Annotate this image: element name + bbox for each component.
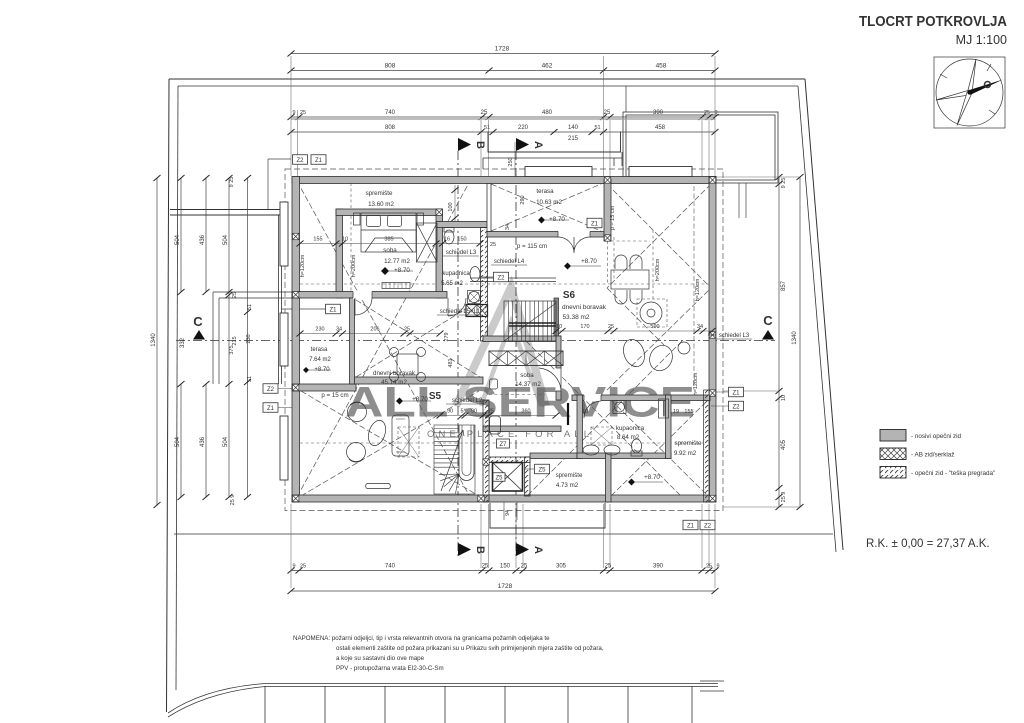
- svg-text:51: 51: [247, 304, 253, 310]
- component: door gap soba right wall: [556, 368, 562, 391]
- dimension: left chain 1340: [156, 178, 158, 505]
- node: Z2 box: [263, 384, 278, 394]
- wall: terrace west divider: [350, 298, 355, 384]
- svg-text:25: 25: [482, 564, 489, 570]
- wire: roof ridge dashed x351: [350, 183, 352, 291]
- node: Z7 box: [497, 439, 510, 448]
- wire: leader lines bottom: [291, 504, 715, 588]
- svg-text:ostali elementi zaštite od pož: ostali elementi zaštite od požara prikaz…: [336, 645, 604, 652]
- wall: left wing mid wall east part: [352, 377, 483, 384]
- svg-text:Z2: Z2: [296, 158, 304, 164]
- svg-text:25: 25: [521, 564, 528, 570]
- svg-text:390: 390: [653, 564, 664, 570]
- wall: soba mid top: [483, 336, 561, 342]
- wire: terrace mid diagonal X: [491, 184, 601, 231]
- component: shelf soba left: [490, 379, 498, 389]
- wire: bottom drawing horizontals: [265, 684, 718, 687]
- watermark: logo triangle: [456, 287, 546, 406]
- wall: spremiste 4.73 top: [530, 453, 577, 459]
- component: wc kupaonica8: [632, 439, 642, 453]
- wire: dashed line y394: [489, 394, 545, 396]
- component: wardrobe with X: [417, 223, 438, 262]
- svg-text:462: 462: [542, 63, 553, 70]
- svg-text:spremište: spremište: [675, 440, 702, 447]
- wall: terrace mid right parapet: [604, 179, 611, 241]
- svg-text:B: B: [474, 546, 486, 554]
- svg-text:51: 51: [484, 125, 490, 131]
- svg-text:481: 481: [448, 358, 454, 367]
- dimension: interior row y414: [440, 415, 556, 417]
- wall: corridor bottom thin: [470, 278, 556, 282]
- wall: terrace mid bottom: [487, 232, 604, 238]
- svg-text:25 9: 25 9: [781, 492, 787, 503]
- svg-text:25: 25: [608, 324, 614, 330]
- svg-text:terasa: terasa: [536, 188, 554, 195]
- component: round chair 2 bottom-left: [347, 443, 366, 462]
- svg-text:A: A: [532, 141, 544, 149]
- component: shower hall rounded: [490, 416, 501, 434]
- svg-text:TLOCRT POTKROVLJA: TLOCRT POTKROVLJA: [859, 14, 1007, 30]
- component: nightstand left: [354, 213, 361, 225]
- svg-text:schiedel L3: schiedel L3: [446, 250, 477, 256]
- svg-text:390: 390: [653, 110, 664, 116]
- wire: south property line: [174, 533, 833, 535]
- svg-text:1340: 1340: [151, 333, 157, 347]
- wire: right wing diagonal X upper: [607, 184, 711, 288]
- svg-text:+8.70: +8.70: [644, 474, 660, 481]
- wire: right wall inner face line: [693, 186, 695, 390]
- component: cabinet kupaonica8: [659, 399, 669, 418]
- node: wall junction marks: [293, 233, 299, 239]
- component: west ledge 1: [280, 202, 288, 266]
- wire: right chains connector mid: [723, 390, 779, 392]
- svg-text:Z1: Z1: [315, 158, 323, 164]
- component: round table S6: [637, 299, 667, 327]
- wall: heavy partition hatched x481: [481, 228, 488, 342]
- component: west ledge 3: [280, 416, 288, 480]
- svg-text:480: 480: [542, 110, 553, 116]
- svg-text:25 9: 25 9: [230, 495, 236, 506]
- svg-text:857: 857: [781, 280, 787, 291]
- svg-text:230: 230: [246, 334, 252, 343]
- svg-text:Z2: Z2: [267, 387, 275, 393]
- svg-text:220: 220: [518, 125, 529, 131]
- wall: building right outer: [709, 177, 716, 503]
- wire: bottom-left room diagonal X: [301, 391, 479, 496]
- svg-text:230: 230: [315, 327, 324, 333]
- svg-text:25: 25: [404, 327, 410, 333]
- wire: bottom-right room diagonal X: [611, 400, 708, 496]
- svg-text:C: C: [763, 313, 773, 328]
- svg-text:Z1: Z1: [732, 390, 740, 396]
- dimension: top row 808/462/458: [291, 70, 715, 72]
- svg-text:9.92 m2: 9.92 m2: [674, 450, 697, 457]
- svg-text:S5: S5: [429, 391, 442, 402]
- svg-text:schiedel L5+L1: schiedel L5+L1: [440, 309, 481, 315]
- component: side table S6: [678, 342, 690, 354]
- svg-text:100: 100: [448, 202, 454, 211]
- component: dining table S6: [611, 270, 649, 289]
- svg-text:spremište: spremište: [556, 472, 583, 479]
- component: west ledge 2: [280, 313, 288, 366]
- svg-text:206: 206: [370, 327, 379, 333]
- svg-text:p = 15 cm: p = 15 cm: [610, 205, 616, 230]
- component: nightstand right: [417, 213, 424, 225]
- svg-text:10: 10: [556, 324, 562, 330]
- component: sink top bathroom: [470, 267, 480, 282]
- svg-text:305: 305: [556, 564, 567, 570]
- svg-text:25: 25: [604, 110, 611, 116]
- svg-text:Z1: Z1: [687, 523, 695, 529]
- svg-text:dnevni boravak: dnevni boravak: [562, 304, 607, 311]
- svg-text:+8.70: +8.70: [581, 258, 597, 265]
- svg-text:1728: 1728: [495, 46, 510, 53]
- wall: divider spremiste/right room: [606, 453, 612, 502]
- wire: neighbour rectangle top-right inner: [626, 115, 775, 180]
- section marker B top: [458, 138, 471, 151]
- svg-text:Z1: Z1: [267, 406, 275, 412]
- legend: opecni zid teska pregrada: [880, 467, 906, 479]
- svg-text:9: 9: [292, 564, 295, 570]
- component: door arc soba right: [539, 368, 561, 391]
- svg-text:MJ 1:100: MJ 1:100: [956, 33, 1007, 47]
- wall: soba mid bottom: [483, 426, 561, 432]
- svg-text:25: 25: [490, 242, 496, 248]
- svg-text:R.K. ± 0,00 = 27,37 A.K.: R.K. ± 0,00 = 27,37 A.K.: [866, 538, 990, 550]
- svg-text:5: 5: [460, 409, 463, 415]
- component: bench bottom-left: [366, 484, 391, 489]
- svg-text:436: 436: [200, 436, 206, 447]
- wall: kupaonica8 right: [666, 395, 672, 459]
- component: bed in bedroom: [361, 213, 416, 252]
- svg-text:+8.70: +8.70: [549, 216, 565, 223]
- wire: slanted boundary east outer: [805, 79, 843, 550]
- wall: building left outer: [292, 177, 300, 503]
- svg-text:h=200cm: h=200cm: [655, 258, 661, 281]
- svg-text:740: 740: [385, 110, 396, 116]
- wire: neighbour rect riser: [625, 86, 627, 112]
- component: shower kupaonica8 dashed: [591, 427, 612, 445]
- svg-text:53.38 m2: 53.38 m2: [562, 314, 589, 321]
- component: top ledge 2: [629, 167, 692, 177]
- wall: bathroom top: [436, 222, 487, 228]
- wall: bedroom right: [436, 209, 443, 298]
- dimension: right chain 9 25 857 10 405 25 9: [778, 177, 780, 507]
- svg-text:kupaonica: kupaonica: [616, 425, 645, 432]
- svg-text:504: 504: [223, 436, 229, 447]
- svg-text:soba: soba: [383, 247, 397, 254]
- wire: roof height dashed line y443: [300, 442, 703, 444]
- wall: terrace mid west parapet: [487, 184, 491, 232]
- svg-text:155: 155: [684, 409, 693, 415]
- dimension: top row 9 25 740 25 480 25 390 25 9: [291, 116, 715, 118]
- wire: below-wall leaders bottom middle: [504, 502, 517, 520]
- wall: building top outer: [292, 177, 716, 184]
- svg-text:90: 90: [447, 409, 453, 415]
- component: table dnevni45: [397, 354, 418, 375]
- svg-text:808: 808: [385, 63, 396, 70]
- svg-text:290: 290: [520, 195, 526, 204]
- svg-text:215: 215: [568, 136, 579, 142]
- svg-text:Z2: Z2: [704, 523, 712, 529]
- svg-text:7.64 m2: 7.64 m2: [309, 357, 331, 363]
- svg-text:405: 405: [781, 439, 787, 450]
- svg-text:NAPOMENA: požarni odjeljci, ti: NAPOMENA: požarni odjeljci, tip i vrsta …: [293, 635, 550, 642]
- svg-text:25: 25: [488, 409, 494, 415]
- svg-text:150: 150: [500, 564, 511, 570]
- component: door kupaonica8: [584, 401, 601, 418]
- wire: terrace upper outline A: [488, 132, 621, 153]
- wire: property boundary inner top: [178, 85, 798, 87]
- svg-text:590: 590: [650, 324, 659, 330]
- wire: terrace upper outline B: [483, 152, 622, 169]
- wire: left wing diagonal SW-NE: [297, 181, 470, 497]
- wire: right chains connector bottom: [723, 506, 800, 508]
- component: rug below bed: [382, 283, 410, 289]
- svg-text:458: 458: [655, 125, 666, 131]
- wall: bedroom left: [336, 209, 343, 298]
- wall: kupaonica8 bottom: [577, 453, 671, 459]
- svg-text:schiedel L3: schiedel L3: [719, 333, 750, 339]
- node: Z1 box: [326, 304, 341, 314]
- component: shower top bathroom: [468, 291, 481, 304]
- wire: S6 dashed boundary below parapet: [608, 237, 651, 284]
- section marker A top: [516, 138, 529, 151]
- svg-text:25: 25: [300, 564, 306, 570]
- svg-text:808: 808: [385, 125, 396, 131]
- svg-text:9 25: 9 25: [781, 178, 787, 189]
- svg-text:schiedel L4: schiedel L4: [494, 259, 525, 265]
- node: Z5 box: [535, 464, 550, 474]
- wire: property boundary outer top: [169, 78, 805, 80]
- svg-text:504: 504: [175, 436, 181, 447]
- node: Z1 box: [729, 387, 744, 397]
- wire: central room diagonal X: [356, 300, 480, 377]
- wire: south-east section diagonal X: [526, 341, 682, 497]
- wall: stair right: [554, 298, 559, 341]
- component: sinks kupaonica8: [583, 445, 599, 455]
- svg-text:9: 9: [716, 564, 719, 570]
- wire: leader from Z2 box down: [268, 159, 291, 209]
- svg-text:h=200cm: h=200cm: [351, 254, 357, 277]
- svg-text:10: 10: [781, 395, 787, 401]
- svg-text:504: 504: [223, 234, 229, 245]
- svg-text:- nosivi opečni zid: - nosivi opečni zid: [911, 433, 962, 440]
- svg-text:soba: soba: [520, 372, 534, 379]
- dimension: top row 808/51/220/140/51/458: [291, 131, 715, 133]
- dimension: left chain 504/215/504: [228, 178, 230, 497]
- wall: chimney hatched band top: [489, 457, 530, 463]
- component: lower terrace outline below building: [490, 503, 605, 528]
- wire: bottom right stub lines: [700, 681, 724, 691]
- svg-text:1340: 1340: [792, 331, 798, 345]
- wire: right chains connector at top: [716, 176, 800, 178]
- wire: lower floor outline corner west: [213, 292, 292, 384]
- svg-text:14.37 m2: 14.37 m2: [515, 381, 541, 388]
- svg-text:385: 385: [384, 237, 393, 243]
- wire: bottom drawing verticals: [265, 686, 692, 723]
- wire: neighbour outline west vertical drop: [279, 215, 282, 384]
- section marker A bottom: [516, 543, 529, 556]
- svg-text:terasa: terasa: [311, 347, 328, 353]
- dimension: interior row y330 right: [556, 330, 712, 332]
- dimension: left chain 436/436: [205, 178, 207, 497]
- wall: soba mid right: [556, 336, 561, 400]
- svg-text:504: 504: [175, 234, 181, 245]
- wire: slanted boundary east inner: [798, 86, 836, 552]
- svg-text:spremište: spremište: [366, 190, 393, 197]
- section marker B bottom: [458, 543, 471, 556]
- svg-text:4.73 m2: 4.73 m2: [556, 482, 579, 489]
- svg-text:Z7: Z7: [499, 442, 507, 448]
- svg-text:51: 51: [594, 125, 600, 131]
- wall: kupaonica8 left: [577, 395, 583, 459]
- svg-text:360: 360: [521, 409, 530, 415]
- svg-text:kupaonica: kupaonica: [442, 271, 470, 277]
- svg-text:Z5: Z5: [495, 475, 503, 481]
- legend: AB zid/serklaz: [880, 448, 906, 460]
- svg-text:schiedel L2: schiedel L2: [452, 398, 483, 404]
- svg-text:332: 332: [180, 337, 186, 348]
- svg-text:12.77 m2: 12.77 m2: [384, 258, 410, 265]
- wire: left wing diagonal NW-SE: [297, 181, 470, 497]
- svg-text:8.64 m2: 8.64 m2: [617, 434, 640, 441]
- node: Z2 box: [494, 272, 509, 282]
- dimension: left chain 504/332/504: [180, 178, 182, 497]
- wire: bottom drawing left curve: [168, 684, 265, 718]
- svg-text:45.14 m2: 45.14 m2: [381, 379, 407, 386]
- component: door gap kupaonica8 wall: [584, 394, 601, 402]
- svg-text:25: 25: [300, 110, 306, 116]
- svg-text:16: 16: [444, 237, 450, 243]
- svg-text:34: 34: [505, 224, 511, 230]
- component: door bathroom top: [448, 298, 466, 316]
- svg-text:34: 34: [697, 324, 703, 330]
- wire: right wing diagonal X mid: [607, 288, 711, 390]
- wire: property boundary outer left: [167, 79, 170, 712]
- svg-text:9 25: 9 25: [229, 177, 235, 188]
- svg-text:A: A: [532, 546, 544, 554]
- svg-text:34: 34: [336, 327, 342, 333]
- dimension: interior row y243: [300, 243, 480, 245]
- svg-text:279: 279: [444, 332, 450, 341]
- svg-text:S6: S6: [563, 290, 576, 301]
- component: dashed storage square bottom-left: [398, 427, 419, 457]
- component: door leaf mark x568: [567, 403, 569, 425]
- component: top ledge 1: [525, 167, 592, 177]
- svg-text:h=120cm: h=120cm: [695, 278, 701, 301]
- svg-text:90: 90: [471, 409, 477, 415]
- svg-text:375: 375: [229, 345, 235, 354]
- section line B vertical dash-dot: [457, 151, 459, 556]
- wall: building bottom outer: [292, 495, 716, 502]
- node: Z1 box: [587, 218, 602, 228]
- component: washing machine: [613, 401, 626, 414]
- svg-text:h=120cm: h=120cm: [300, 254, 306, 277]
- dimension: left chain 51/230/51: [247, 178, 249, 497]
- wall: right wing hatched strip: [704, 390, 710, 502]
- svg-text:94: 94: [505, 510, 511, 516]
- svg-text:25: 25: [481, 110, 488, 116]
- svg-text:+8.70: +8.70: [412, 396, 428, 403]
- svg-text:Z1: Z1: [591, 221, 599, 227]
- node: Z2 box: [293, 155, 308, 165]
- svg-text:19: 19: [673, 409, 679, 415]
- component: door gap terrace wall: [558, 231, 590, 238]
- svg-text:+8.70: +8.70: [394, 267, 410, 274]
- wire: property boundary inner left: [176, 86, 178, 690]
- legend: nosivi opecni zid: [880, 430, 906, 442]
- component: lower stair with U turn: [434, 425, 475, 494]
- wall: upper rooms bottom y291: [292, 292, 447, 299]
- svg-text:dnevni boravak: dnevni boravak: [373, 370, 416, 377]
- svg-text:25: 25: [232, 292, 238, 298]
- dimension: bottom row total 1728: [291, 590, 715, 592]
- svg-text:p = 115 cm: p = 115 cm: [517, 243, 547, 250]
- node: Z2 box: [700, 520, 715, 530]
- dimension: bottom row 9 25 740 25 150 25 305 25 390 25 9: [291, 570, 715, 572]
- svg-text:150: 150: [457, 237, 466, 243]
- wall: left wing mid wall west part: [292, 384, 356, 391]
- component: armchair S6 a: [620, 336, 648, 369]
- svg-text:13.60 m2: 13.60 m2: [368, 201, 394, 208]
- svg-text:51: 51: [247, 376, 253, 382]
- node: Z5 box: [493, 473, 505, 482]
- svg-text:Z2: Z2: [497, 275, 505, 281]
- node: Z1 box: [311, 155, 326, 165]
- component: lounge sofa bottom-left: [392, 415, 409, 456]
- svg-text:10: 10: [342, 237, 348, 243]
- node: Z2 box: [729, 401, 744, 411]
- svg-text:25: 25: [704, 110, 710, 116]
- svg-text:250: 250: [508, 157, 514, 166]
- note: NAPOMENA block: [293, 635, 604, 672]
- wall: chimney hatched band right: [525, 457, 531, 496]
- svg-text:5.65 m2: 5.65 m2: [441, 281, 463, 287]
- wall: hall vertical x483: [483, 400, 489, 502]
- wire: neighbour outline west double horizontal: [170, 210, 281, 216]
- component: chimney flue box with X: [493, 463, 523, 492]
- section line C horizontal dash-dot: [176, 340, 775, 342]
- component: door gap bedroom wall: [353, 291, 372, 299]
- wall: kupaonica8 top: [572, 395, 710, 401]
- svg-text:B: B: [474, 141, 486, 149]
- svg-text:215: 215: [232, 336, 238, 345]
- wire: roof height dashed line y284: [300, 283, 716, 285]
- svg-text:1728: 1728: [498, 583, 513, 590]
- wire: eave dashed rectangle: [285, 169, 723, 511]
- svg-text:C: C: [193, 314, 203, 329]
- section line A vertical dash-dot: [515, 151, 517, 556]
- component: wc top bathroom: [444, 230, 454, 244]
- svg-text:740: 740: [385, 564, 396, 570]
- dimension: top row total 1728: [291, 53, 715, 55]
- component: armchair S6 b: [646, 342, 677, 375]
- component: schiedel flue blocks L5+L1: [466, 305, 488, 317]
- svg-text:436: 436: [200, 234, 206, 245]
- node: Z1 box: [263, 403, 278, 413]
- svg-text:- AB zid/serklaž: - AB zid/serklaž: [911, 452, 954, 459]
- svg-text:a koje su sastavni dio ove map: a koje su sastavni dio ove mape: [336, 655, 425, 662]
- wire: roof ridge dashed x666: [652, 230, 654, 300]
- svg-text:- opečni zid - "teška pregrada: - opečni zid - "teška pregrada": [911, 470, 995, 477]
- svg-text:10: 10: [582, 409, 588, 415]
- component: oval table bottom-left: [365, 418, 388, 448]
- svg-text:10.63 m2: 10.63 m2: [536, 199, 562, 206]
- wire: leader from Z1 left box: [281, 308, 326, 310]
- component: double door terrace: [558, 237, 590, 253]
- node: Z1 box: [683, 520, 698, 530]
